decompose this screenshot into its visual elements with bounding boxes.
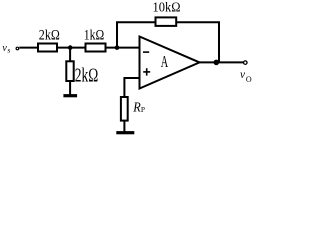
svg-text:s: s	[7, 46, 10, 55]
node out junction dot	[214, 60, 220, 66]
svg-text:2kΩ: 2kΩ	[39, 28, 60, 44]
svg-text:10kΩ: 10kΩ	[153, 1, 181, 16]
op-amp U1	[140, 37, 200, 89]
svg-text:O: O	[246, 75, 252, 84]
terminal vs	[16, 47, 19, 50]
ground 2	[116, 131, 134, 134]
ground 1	[63, 94, 77, 97]
svg-text:A: A	[161, 52, 168, 71]
svg-text:1kΩ: 1kΩ	[84, 28, 105, 44]
resistor R1 2k	[38, 44, 57, 52]
svg-text:P: P	[141, 105, 145, 114]
wire to ground 1	[69, 82, 71, 95]
svg-text:2kΩ: 2kΩ	[75, 65, 99, 87]
node A junction dot	[68, 45, 73, 50]
resistor RP	[121, 97, 128, 121]
minus sign	[143, 51, 149, 53]
wire to ground 2	[123, 121, 125, 132]
wire feedback loop	[117, 22, 219, 62]
terminal vo	[244, 61, 248, 65]
wire plus input	[124, 78, 138, 97]
wire output	[200, 61, 244, 63]
wire shunt down	[69, 48, 71, 62]
wire input	[19, 47, 138, 49]
plus sign	[143, 68, 150, 75]
label vs	[2, 43, 10, 55]
label RP	[132, 101, 145, 116]
node B junction dot	[115, 45, 120, 50]
svg-text:R: R	[132, 101, 141, 116]
resistor R3 1k	[86, 44, 106, 52]
resistor R2 shunt 2k	[66, 61, 73, 81]
resistor RF 10k	[156, 17, 177, 26]
label vo	[240, 69, 252, 84]
